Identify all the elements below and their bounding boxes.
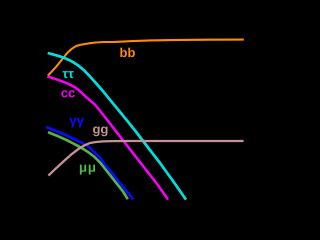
curve tautau (cyan) [48, 53, 186, 200]
label cc [61, 90, 75, 97]
label mumu [80, 165, 95, 175]
curve cc (magenta) [47, 77, 168, 200]
curve bb (orange) [48, 40, 244, 76]
label tautau [62, 71, 73, 78]
curve gamgam (blue) [46, 127, 133, 200]
curve mumu (green) [48, 132, 128, 199]
label gg [93, 127, 107, 137]
curve gg (rosybrown) [48, 141, 243, 176]
label gamgam [69, 118, 84, 128]
label bb [120, 48, 134, 58]
